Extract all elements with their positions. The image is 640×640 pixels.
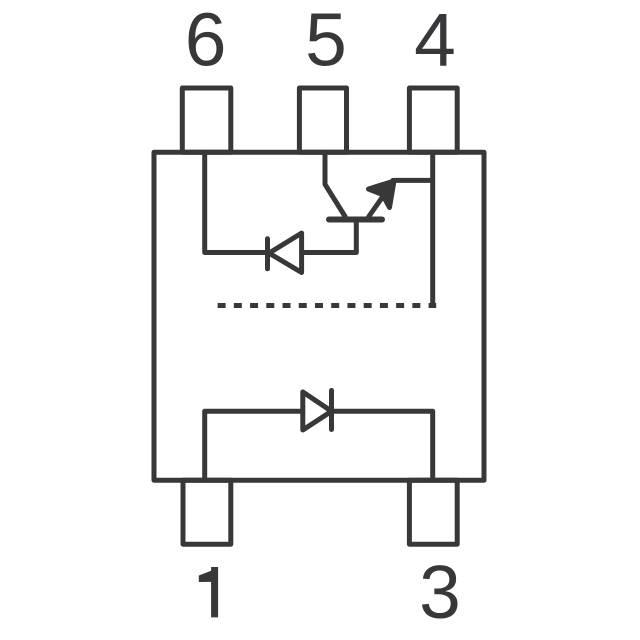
svg-text:6: 6 [185, 0, 227, 82]
svg-text:3: 3 [419, 550, 461, 634]
svg-text:5: 5 [305, 0, 347, 82]
svg-text:4: 4 [414, 0, 456, 82]
